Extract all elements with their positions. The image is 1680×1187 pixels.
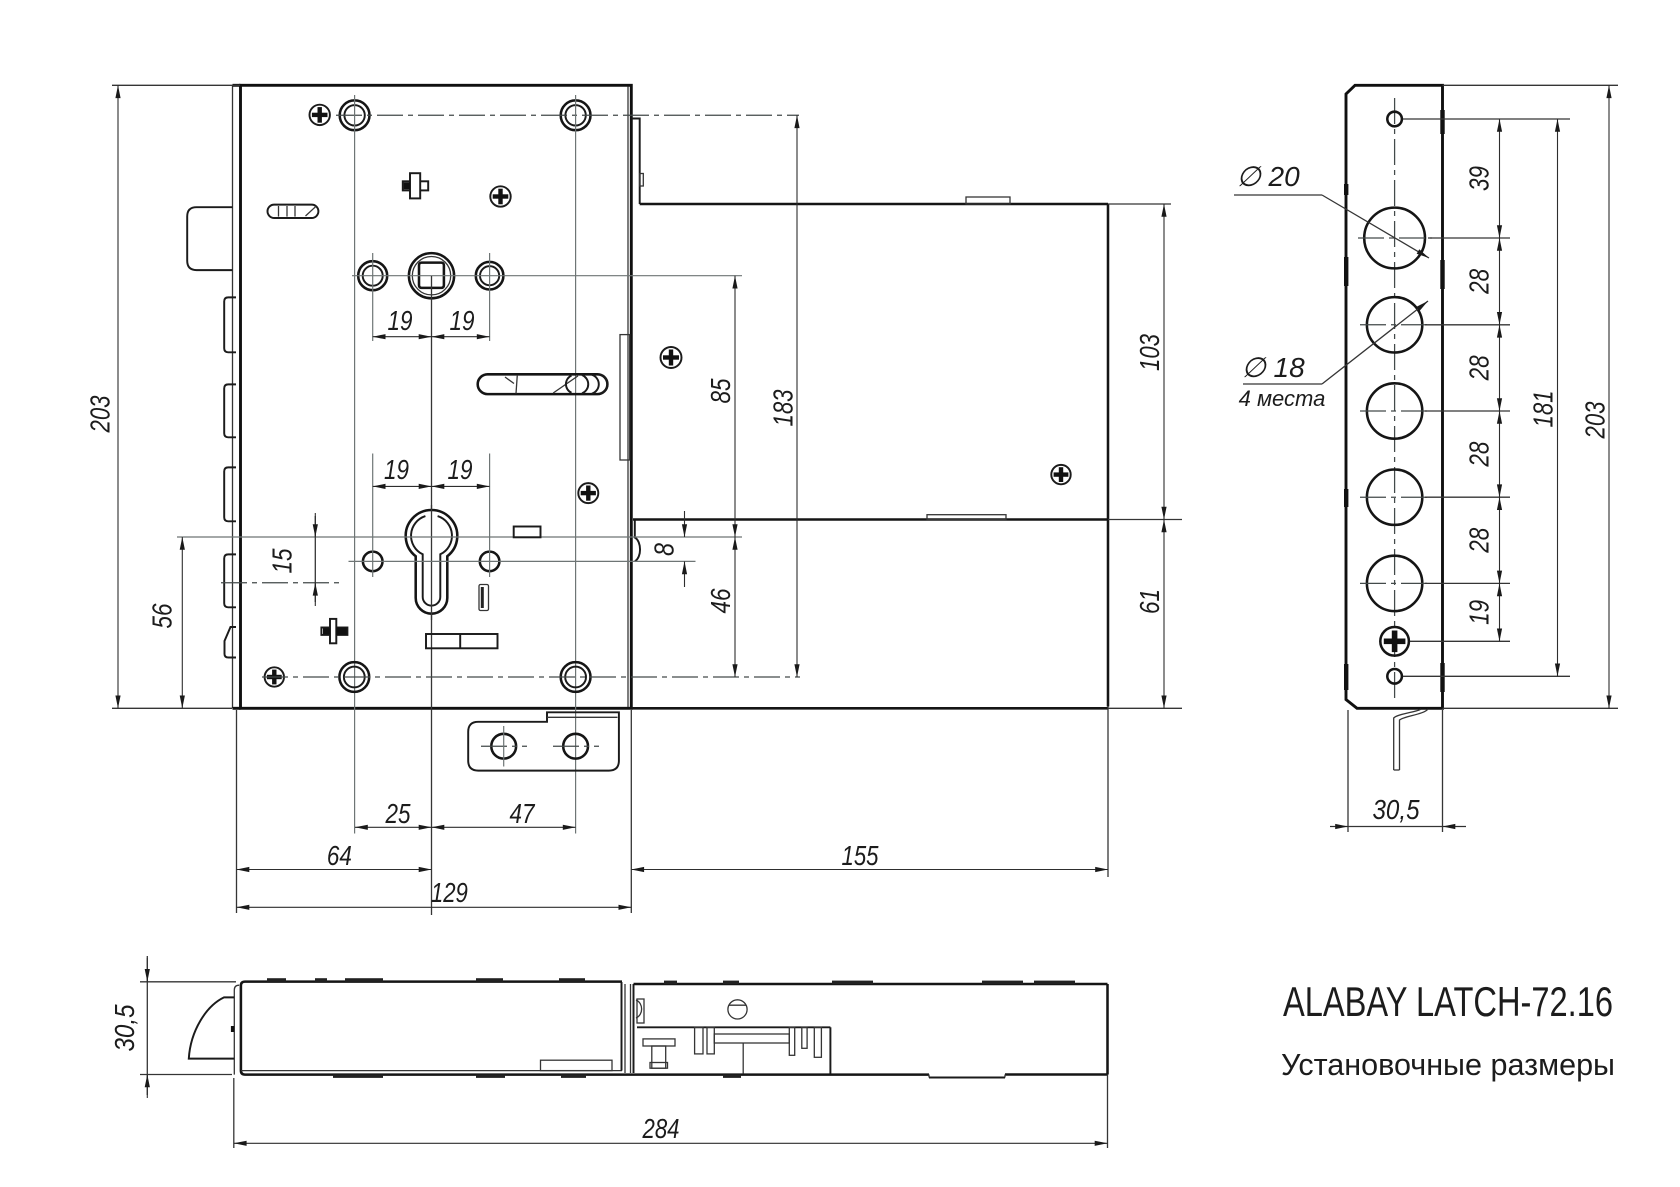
dim 25 [355,798,432,829]
svg-text:15: 15 [266,548,297,573]
bottom view joint lines [622,982,634,1073]
dim 284 [234,1075,1108,1149]
svg-text:30,5: 30,5 [1373,794,1420,825]
svg-text:25: 25 [385,798,411,829]
small rect on cylinder line [514,527,541,538]
bottom left screw [265,667,284,686]
dim 64 [237,840,432,871]
svg-text:85: 85 [705,378,736,403]
bent hook below faceplate [1394,709,1428,770]
inner strip at body right edge [620,335,630,460]
euro cylinder hole [406,510,458,614]
bottom view latch bolt [189,997,234,1058]
leader d20 [1234,161,1429,258]
deadbolt 3 [224,467,236,521]
bottom fixing hole [1387,669,1402,684]
svg-text:19: 19 [1463,600,1494,625]
extension lines to chain dim [1403,85,1618,708]
main centerline over cylinder [431,505,433,620]
dim 85 [705,276,736,537]
svg-text:28: 28 [1463,269,1494,295]
bottom mounting hole right [561,662,591,692]
svg-text:19: 19 [388,305,413,336]
follower cross (top) [403,173,428,198]
faceplate screw [1380,627,1409,656]
guard pin wedge [225,627,237,658]
bottom view top edge tabs [267,978,585,982]
svg-text:28: 28 [1463,355,1494,381]
svg-text:28: 28 [1463,441,1494,467]
faceplate edge tabs [1344,110,1445,692]
faceplate vertical centerline [1394,98,1396,700]
extension plate top edge [640,203,1108,206]
screw near follower [490,186,510,206]
svg-text:155: 155 [842,840,879,871]
svg-text:Установочные размеры: Установочные размеры [1281,1047,1615,1082]
spindle horizontal centerline [352,275,742,277]
svg-text:47: 47 [510,798,536,829]
step bump detail [640,174,644,187]
svg-text:129: 129 [431,877,468,908]
latch bolt (front view, left) [187,207,232,270]
bottom extension lines [237,707,1109,914]
svg-text:64: 64 [327,840,352,871]
top edge step to extension [632,119,640,205]
svg-text:30,5: 30,5 [109,1004,140,1051]
cylinder side hole left [363,552,383,572]
svg-text:19: 19 [448,454,473,485]
dim 30,5 side view [1330,710,1466,832]
svg-text:203: 203 [1579,401,1610,439]
follower cross (bottom) [321,619,347,643]
centerline through top holes [336,114,799,116]
dim 155 [631,840,1108,871]
svg-text:19: 19 [450,305,475,336]
svg-text:19: 19 [384,454,409,485]
deadbolt 4 [224,554,236,607]
screw on extension right [1051,465,1070,484]
slot with pin (top-left) [268,205,319,218]
dim 183 [767,115,798,677]
screw lower mid [578,483,598,503]
svg-text:203: 203 [84,395,115,433]
dim 8 [648,511,684,587]
hole d18 no.2 [1367,383,1422,438]
spindle side hole right [476,262,504,290]
svg-text:∅ 20: ∅ 20 [1236,161,1300,192]
spindle hub [409,253,454,298]
cylinder side hole centerlines [372,454,374,578]
spindle side hole left [358,261,387,290]
dim 103 [1108,204,1182,520]
svg-text:284: 284 [642,1113,680,1144]
dim 129 [237,877,632,908]
handle slot with spring [478,374,608,394]
vertical centerline through left hole column [354,95,356,834]
extension plate bottom edge [633,518,1108,521]
bottom view mechanism [637,1000,1005,1078]
dim 61 [1108,520,1182,709]
svg-text:ALABAY LATCH-72.16: ALABAY LATCH-72.16 [1283,978,1613,1025]
svg-text:8: 8 [648,543,679,556]
bottom view bottom edge tabs [333,1075,741,1078]
svg-text:103: 103 [1134,334,1165,371]
centerline through bottom holes [262,676,800,678]
svg-text:39: 39 [1463,166,1494,191]
svg-text:46: 46 [705,588,736,613]
faceplate outline [1346,85,1443,708]
svg-text:∅ 18: ∅ 18 [1241,352,1305,383]
side holes line [349,560,696,562]
vertical slot detail [479,585,489,611]
extension plate tab slot (top) [966,197,1010,204]
extension plate tab slot (bottom) [927,515,1006,520]
hole d18 no.1 [1367,297,1422,352]
cylinder centerline horizontal [177,536,742,538]
bottom view pad rect [541,1060,613,1070]
dim 56 [146,537,182,708]
auxiliary latch at body right edge [635,521,640,562]
extension plate right edge [1107,204,1110,707]
svg-text:61: 61 [1134,589,1165,614]
vertical centerline through right hole column [575,95,577,834]
cylinder side hole right [480,552,500,572]
spindle side hole centerlines [372,253,374,341]
leader d18 [1239,301,1428,411]
dash-dot line for dim 15 [221,582,342,584]
dim 30,5 bottom view [109,956,236,1098]
strike plate below body [468,712,619,770]
bottom mounting hole left [339,662,369,692]
dim 19/19 lower [373,454,490,486]
deadbolt 2 [224,384,236,437]
svg-text:56: 56 [146,603,177,628]
lower backplate bottom edge [631,707,1108,710]
hole d18 no.4 [1367,556,1422,611]
screw on extension upper [661,347,682,368]
deadbolt 1 [224,297,236,352]
svg-text:181: 181 [1527,391,1558,428]
dim 181 [1527,119,1558,676]
bottom view right section [634,981,1108,1075]
dim 203 right [1579,85,1610,708]
hole d20 [1364,208,1425,269]
dim 47 [432,798,576,829]
svg-text:4 места: 4 места [1239,386,1326,411]
chain dims 39/28x4/19 [1463,119,1499,641]
top mounting hole right [561,100,591,130]
dim 46 [705,537,736,677]
lock body outline [233,85,632,708]
top mounting screw [310,105,330,125]
hole d18 no.3 [1367,470,1422,525]
svg-text:28: 28 [1463,527,1494,553]
top mounting hole left [340,100,370,130]
svg-text:183: 183 [767,389,798,426]
split rectangle below cylinder [426,634,498,648]
top fixing hole [1387,112,1402,127]
dim 19/19 upper [373,305,490,337]
main vertical centerline [431,276,433,915]
dim 203 left [84,85,240,708]
dim 15 [266,513,315,606]
bottom view body left section [231,982,1108,1078]
circle crosshairs [1358,238,1432,583]
